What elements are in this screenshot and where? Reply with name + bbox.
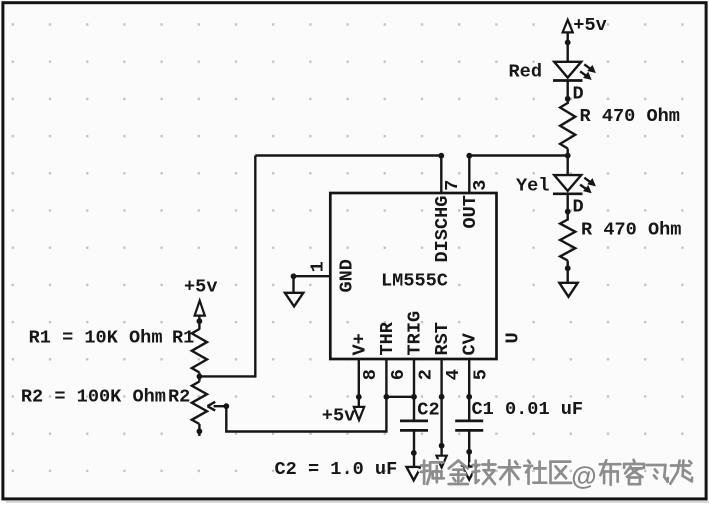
svg-text:2: 2 — [415, 369, 436, 380]
svg-text:RST: RST — [432, 322, 453, 355]
svg-text:Yel: Yel — [516, 175, 549, 196]
svg-text:4: 4 — [443, 369, 464, 380]
svg-text:3: 3 — [470, 180, 491, 191]
svg-text:Red: Red — [509, 62, 542, 83]
svg-text:+5v: +5v — [184, 276, 217, 297]
svg-text:THR: THR — [377, 321, 398, 355]
svg-text:R 470 Ohm: R 470 Ohm — [581, 220, 681, 241]
svg-text:CV: CV — [460, 332, 481, 355]
svg-text:+5v: +5v — [322, 405, 355, 426]
svg-text:D: D — [573, 196, 584, 217]
svg-text:R1: R1 — [172, 328, 194, 349]
svg-text:7: 7 — [442, 180, 463, 191]
svg-text:LM555C: LM555C — [381, 271, 448, 292]
svg-text:D: D — [573, 83, 584, 104]
svg-text:+5v: +5v — [573, 15, 606, 36]
svg-text:@: @ — [571, 460, 596, 490]
svg-text:1: 1 — [308, 261, 329, 272]
svg-text:U: U — [503, 332, 524, 343]
svg-text:TRIG: TRIG — [405, 311, 426, 356]
svg-text:C2: C2 — [417, 399, 439, 420]
svg-text:R2: R2 — [168, 387, 190, 408]
svg-text:R 470 Ohm: R 470 Ohm — [580, 106, 680, 127]
svg-text:OUT: OUT — [460, 195, 481, 228]
svg-text:R2 = 100K Ohm: R2 = 100K Ohm — [21, 387, 166, 408]
svg-text:DISCHG: DISCHG — [432, 196, 453, 263]
svg-text:R1 = 10K Ohm: R1 = 10K Ohm — [29, 328, 163, 349]
svg-text:V+: V+ — [349, 333, 370, 355]
svg-text:GND: GND — [337, 259, 358, 292]
svg-text:6: 6 — [388, 369, 409, 380]
svg-text:C1 0.01 uF: C1 0.01 uF — [472, 399, 584, 420]
svg-text:C2 = 1.0 uF: C2 = 1.0 uF — [275, 459, 398, 480]
svg-text:8: 8 — [360, 369, 381, 380]
svg-text:5: 5 — [471, 369, 492, 380]
